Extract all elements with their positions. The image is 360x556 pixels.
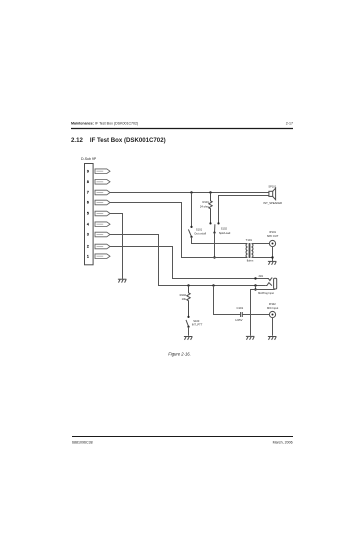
wire IP101 to ground [272, 247, 274, 262]
svg-text:2-17: 2-17 [286, 121, 293, 125]
svg-text:9: 9 [87, 169, 89, 173]
wire pin7 to speaker [110, 192, 269, 194]
footer rule [72, 436, 293, 438]
svg-text:SP101: SP101 [268, 185, 276, 189]
wire pin5 to ground [110, 214, 123, 279]
ground IP102 [268, 337, 277, 340]
svg-text:1/25V: 1/25V [235, 318, 242, 322]
D-sub connector body [85, 164, 94, 265]
resistor R101 [209, 193, 212, 223]
header rule [71, 128, 293, 130]
svg-text:24 ohm: 24 ohm [200, 204, 210, 208]
wire secondary top to IP101 [252, 243, 270, 245]
wire ring-sleeve tie [255, 286, 257, 290]
node mic branch junction [212, 284, 214, 286]
pin 5 [95, 211, 110, 216]
svg-text:MIC Input: MIC Input [267, 306, 279, 310]
svg-text:Spk/Load: Spk/Load [219, 231, 231, 235]
wire J101 sleeve to ground [251, 290, 275, 336]
wire secondary bottom [252, 257, 273, 259]
switch S102 [209, 222, 211, 224]
transformer T101 [246, 243, 253, 258]
wire pin2 to J101 tip [110, 247, 267, 279]
wire speaker return [219, 196, 269, 224]
node S102 to return junction [213, 256, 215, 258]
svg-text:R102: R102 [180, 293, 187, 297]
jack J101 plug body [274, 278, 277, 289]
wire IP102 to ground [272, 318, 274, 336]
wire S103 to ground [188, 327, 190, 336]
node pin3 wire dot [254, 284, 256, 286]
svg-text:Figure 2-16.: Figure 2-16. [168, 351, 191, 356]
node pin2 wire dot [254, 277, 256, 279]
pin 8 [95, 180, 110, 185]
svg-text:IP102: IP102 [269, 302, 276, 306]
svg-text:7: 7 [87, 191, 89, 195]
pin 7 [95, 190, 110, 195]
svg-text:J101: J101 [258, 276, 264, 278]
svg-text:S102: S102 [221, 227, 228, 231]
pin 4 [95, 222, 110, 227]
pin 9 [95, 169, 110, 174]
svg-text:1: 1 [87, 254, 89, 258]
svg-text:3: 3 [87, 233, 89, 237]
wire S102 common down [214, 233, 216, 258]
ground IP101 [268, 261, 277, 264]
svg-text:8: 8 [87, 180, 89, 184]
svg-text:S101: S101 [196, 227, 203, 231]
svg-text:Maintenance: IF Test Box (DSK0: Maintenance: IF Test Box (DSK001C702) [71, 121, 138, 125]
svg-text:S103: S103 [193, 319, 200, 323]
jack IP102 [269, 311, 275, 317]
svg-text:2: 2 [87, 245, 89, 249]
speaker SP101 [269, 188, 276, 200]
svg-text:T101: T101 [246, 238, 253, 242]
svg-text:6: 6 [87, 201, 89, 205]
node sleeve dot [254, 288, 256, 290]
svg-text:8ohm: 8ohm [247, 259, 254, 263]
pin 6 [95, 200, 110, 205]
jack IP101 [269, 240, 275, 246]
node R101 top junction [209, 191, 211, 193]
ground S103 [184, 337, 193, 340]
svg-text:SPK OUT: SPK OUT [267, 234, 279, 238]
pin 3 [95, 232, 110, 237]
svg-text:5: 5 [87, 212, 89, 216]
svg-text:INT_PTT: INT_PTT [192, 323, 203, 327]
svg-text:March, 2006: March, 2006 [273, 441, 293, 445]
pin 2 [95, 244, 110, 249]
svg-text:2.12IF Test Box (DSK001C702): 2.12IF Test Box (DSK001C702) [71, 137, 166, 144]
ground J101 sleeve [246, 336, 255, 339]
wire pin6 to transformer primary bottom [110, 203, 247, 258]
wire mic branch down and right [214, 286, 241, 315]
node secondary bottom junction [271, 256, 273, 258]
switch S103 [187, 316, 189, 318]
ground pin5 [118, 279, 127, 282]
svg-text:D-Sub 9P: D-Sub 9P [81, 157, 97, 161]
wire S101 to transformer primary top [192, 237, 248, 244]
svg-text:IP101: IP101 [269, 230, 276, 234]
svg-text:10k: 10k [182, 297, 187, 301]
node S101 top junction [190, 191, 192, 193]
svg-text:Mic/Prog Input: Mic/Prog Input [258, 292, 274, 295]
jack J101 ring contact [266, 283, 272, 286]
svg-text:R101: R101 [202, 200, 209, 204]
jack J101 tip contact [267, 278, 272, 281]
capacitor C101 [241, 312, 243, 317]
svg-text:INT_SPEAKER: INT_SPEAKER [263, 201, 282, 205]
svg-text:Out on/off: Out on/off [194, 231, 206, 235]
node R102 junction [187, 284, 189, 286]
svg-text:4: 4 [87, 222, 89, 226]
svg-text:C101: C101 [236, 306, 243, 310]
resistor R102 [187, 286, 190, 317]
pin 1 [95, 254, 110, 259]
switch S101 [191, 193, 193, 227]
wire pin3 to J101 ring [110, 235, 266, 286]
wire C101 to IP102 [242, 314, 269, 316]
svg-text:6881096C38: 6881096C38 [72, 441, 93, 445]
